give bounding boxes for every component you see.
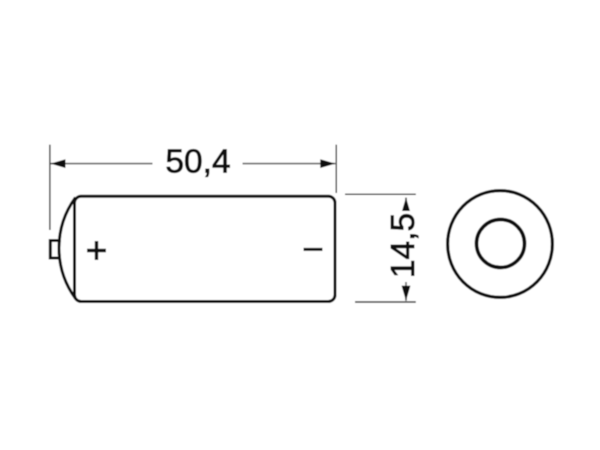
extension line right (50,4) [335, 145, 337, 193]
text mask 14,5 [380, 211, 420, 282]
extension line top (14,5) [345, 193, 416, 195]
extension line left (50,4) [49, 145, 51, 230]
dimension line 50,4 [51, 163, 336, 165]
positive end dome [59, 198, 76, 299]
battery body (side view) [75, 196, 336, 301]
arrow up [402, 198, 411, 213]
arrow left [51, 159, 66, 168]
plus symbol [87, 241, 106, 260]
end view outer circle [448, 191, 553, 298]
arrow right [320, 159, 335, 168]
minus symbol [304, 248, 323, 251]
text mask 50,4 [153, 146, 243, 178]
dimension line 14,5 [405, 198, 407, 301]
svg-text:14,5: 14,5 [385, 213, 422, 278]
svg-text:50,4: 50,4 [165, 144, 230, 181]
positive terminal nub [50, 241, 61, 259]
arrow down [402, 286, 411, 301]
extension line bottom (14,5) [355, 301, 416, 303]
end view inner circle [477, 220, 525, 268]
